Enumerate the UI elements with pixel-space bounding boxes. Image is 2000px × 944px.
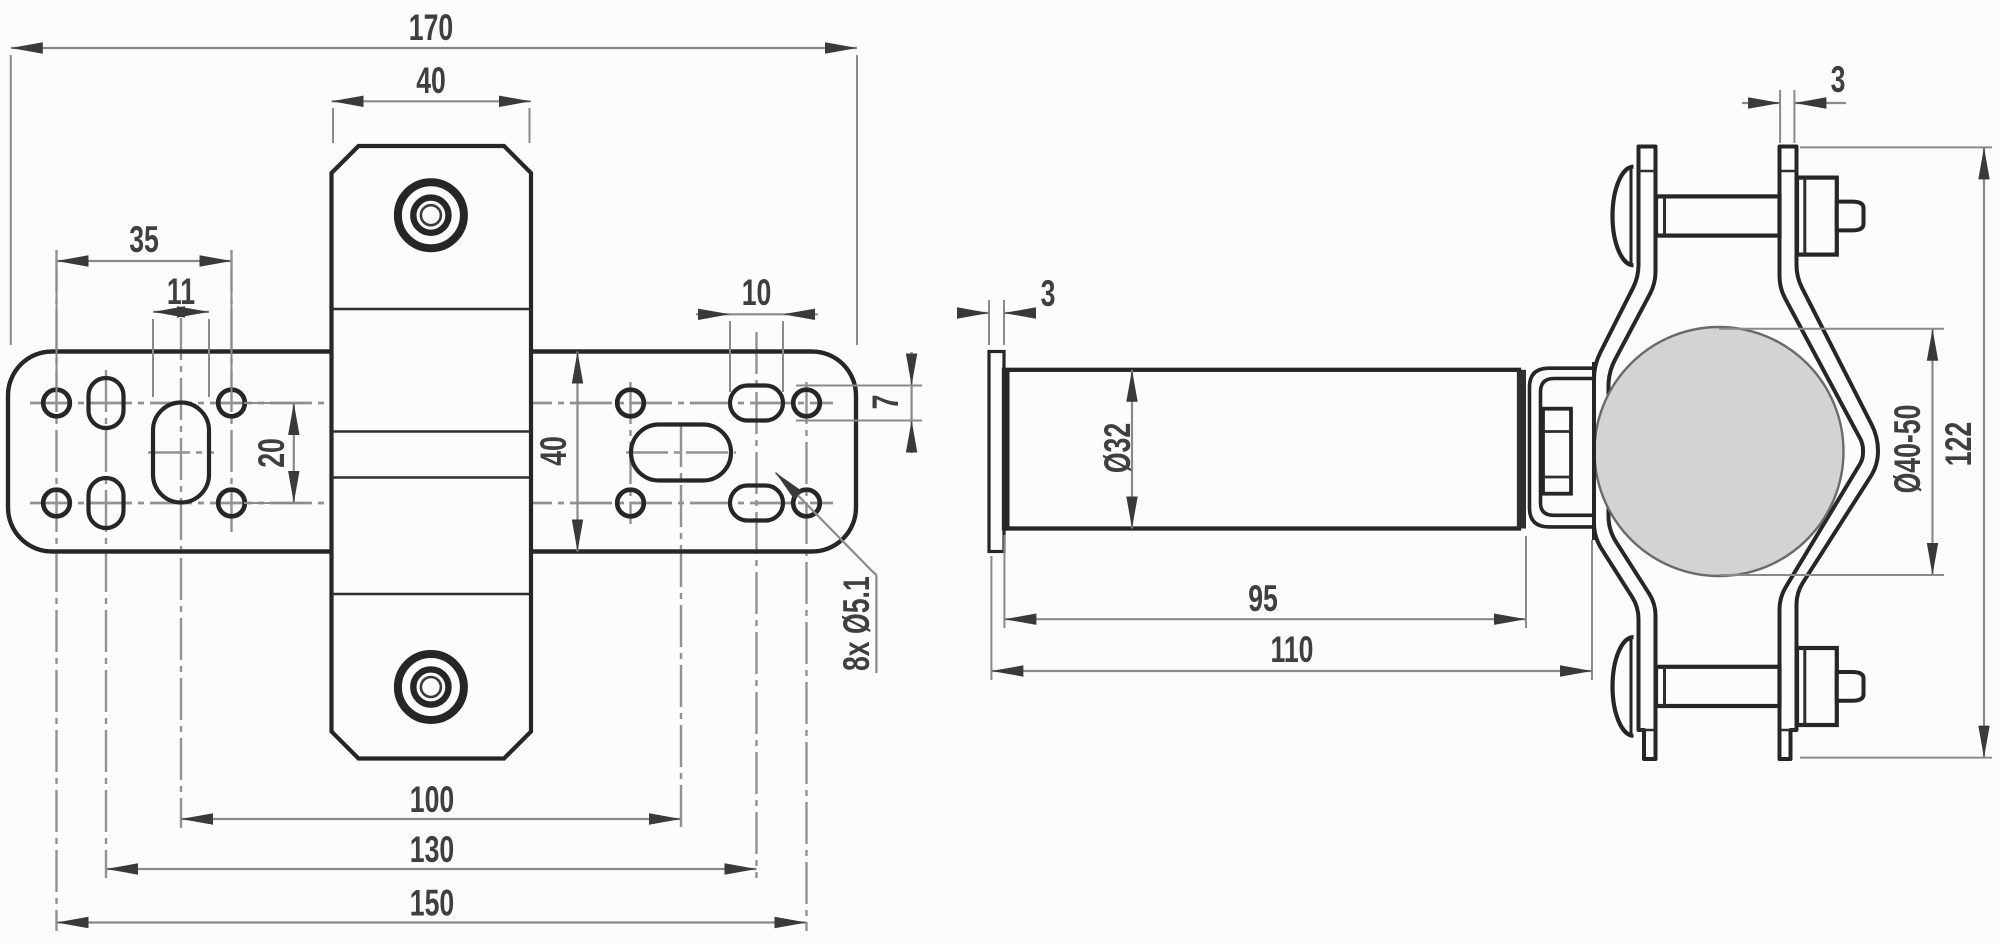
tab washer lines — [1639, 171, 1797, 730]
dimension 35 hole spacing — [57, 219, 232, 392]
dimension 7 slot height — [796, 352, 922, 453]
dimension 3 wall strip — [957, 273, 1055, 345]
plate outline stroke — [8, 352, 856, 552]
leader 8x Dia5.1 — [776, 473, 878, 674]
svg-text:10: 10 — [742, 272, 772, 313]
dimension 3 jaw thickness — [1742, 59, 1846, 143]
8x mounting holes Dia 5.1 — [43, 390, 820, 517]
dimension 40 strap width — [332, 60, 532, 143]
strap bend lines — [332, 309, 532, 594]
dimension Dia40-50 pipe range — [1719, 329, 1944, 575]
clamp right jaw — [1780, 147, 1879, 760]
svg-text:Ø32: Ø32 — [1097, 423, 1138, 473]
mounting plate outline (170x40) — [8, 352, 856, 552]
dimension 110 overall — [991, 540, 1592, 680]
tube Dia32 — [1004, 370, 1519, 529]
tube left end edge — [1004, 370, 1010, 529]
svg-text:3: 3 — [1831, 59, 1846, 100]
svg-text:35: 35 — [129, 219, 159, 260]
dimension 170 overall width — [11, 7, 857, 345]
flange nut — [1543, 409, 1571, 494]
svg-text:170: 170 — [409, 7, 453, 48]
tube end flange C-profile — [1530, 368, 1597, 527]
dimension 11 slot width — [153, 271, 209, 397]
dimension 10 slot length — [696, 272, 818, 392]
clamp bolt top — [1613, 167, 1864, 266]
dimension 150 — [57, 882, 807, 928]
rivet bottom — [398, 654, 464, 720]
svg-text:11: 11 — [167, 271, 195, 312]
left jaw face line — [1592, 362, 1596, 540]
centerline hole row 1 and row 2 — [30, 403, 833, 503]
svg-text:20: 20 — [251, 438, 292, 468]
svg-text:40: 40 — [416, 60, 446, 101]
svg-text:3: 3 — [1041, 273, 1056, 314]
centerlines hole columns — [57, 250, 807, 931]
dimension 40 plate height — [533, 352, 583, 552]
wall flange strip (3mm) — [989, 352, 1004, 552]
dimension 100 — [181, 779, 681, 825]
svg-text:40: 40 — [533, 436, 574, 466]
tube end edge — [1517, 370, 1526, 529]
dimension 20 hole row spacing — [244, 403, 303, 503]
dimension Dia32 — [1097, 370, 1138, 529]
svg-text:8x Ø5.1: 8x Ø5.1 — [836, 576, 877, 671]
clamp left jaw — [1594, 147, 1656, 760]
svg-text:95: 95 — [1248, 578, 1278, 619]
svg-text:7: 7 — [865, 395, 906, 410]
clamped pipe Dia40-50 — [1595, 327, 1844, 576]
clamp bolt bottom — [1613, 637, 1864, 736]
svg-text:110: 110 — [1271, 629, 1314, 670]
svg-text:130: 130 — [410, 829, 454, 870]
svg-text:100: 100 — [410, 779, 454, 820]
dimension 95 tube length — [1004, 535, 1526, 628]
svg-text:150: 150 — [410, 882, 454, 923]
slot 11x20 vertical — [153, 403, 209, 503]
rivet top — [398, 182, 464, 248]
slot 20x11 horizontal — [631, 425, 731, 481]
dimension 122 clamp height — [1800, 147, 1992, 757]
slotted holes small — [89, 378, 784, 528]
dimension 130 — [106, 829, 757, 875]
svg-text:122: 122 — [1938, 422, 1979, 466]
vertical strap bracket (40 wide) — [332, 146, 532, 759]
svg-text:Ø40-50: Ø40-50 — [1887, 405, 1928, 494]
